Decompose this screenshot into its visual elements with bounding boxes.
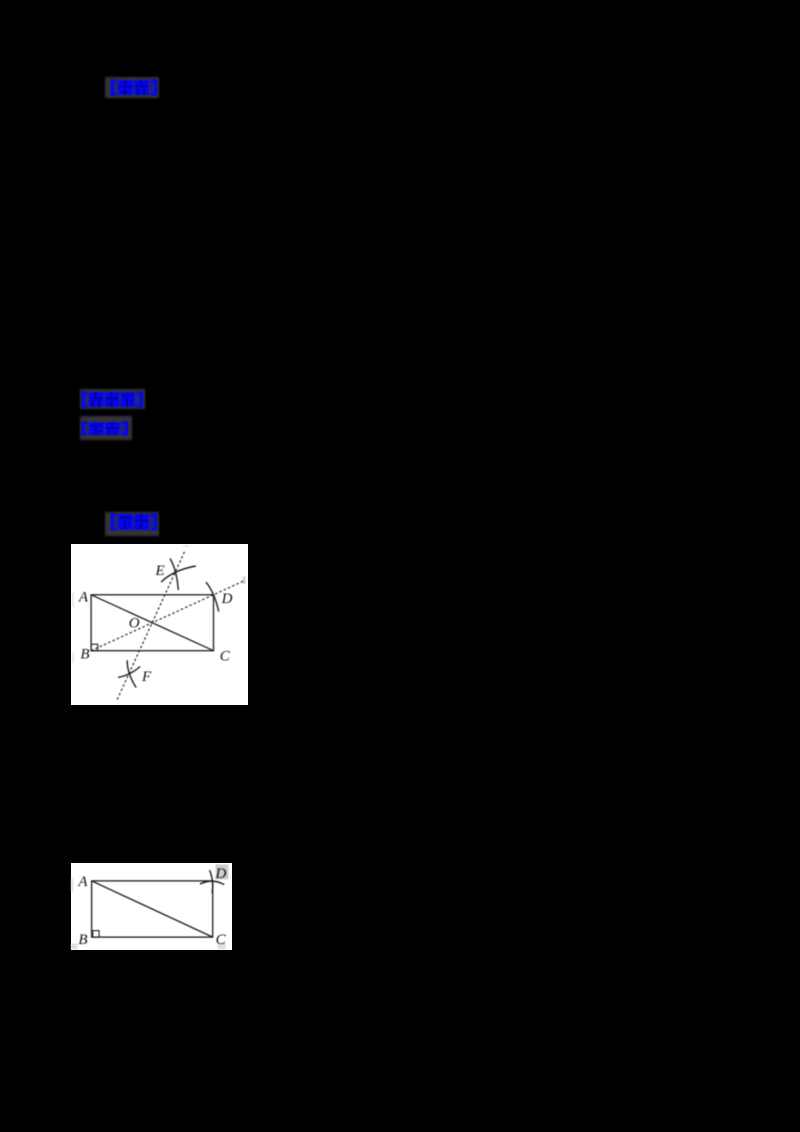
svg-text:C: C [216,932,227,948]
svg-text:C: C [220,648,231,664]
svg-text:F: F [141,668,152,684]
svg-text:B: B [79,932,88,948]
svg-text:O: O [129,615,140,631]
svg-text:B: B [81,646,90,662]
svg-text:E: E [155,563,165,579]
svg-text:A: A [78,589,89,605]
svg-text:D: D [221,591,233,607]
svg-text:A: A [78,874,89,890]
svg-text:D: D [215,866,227,882]
